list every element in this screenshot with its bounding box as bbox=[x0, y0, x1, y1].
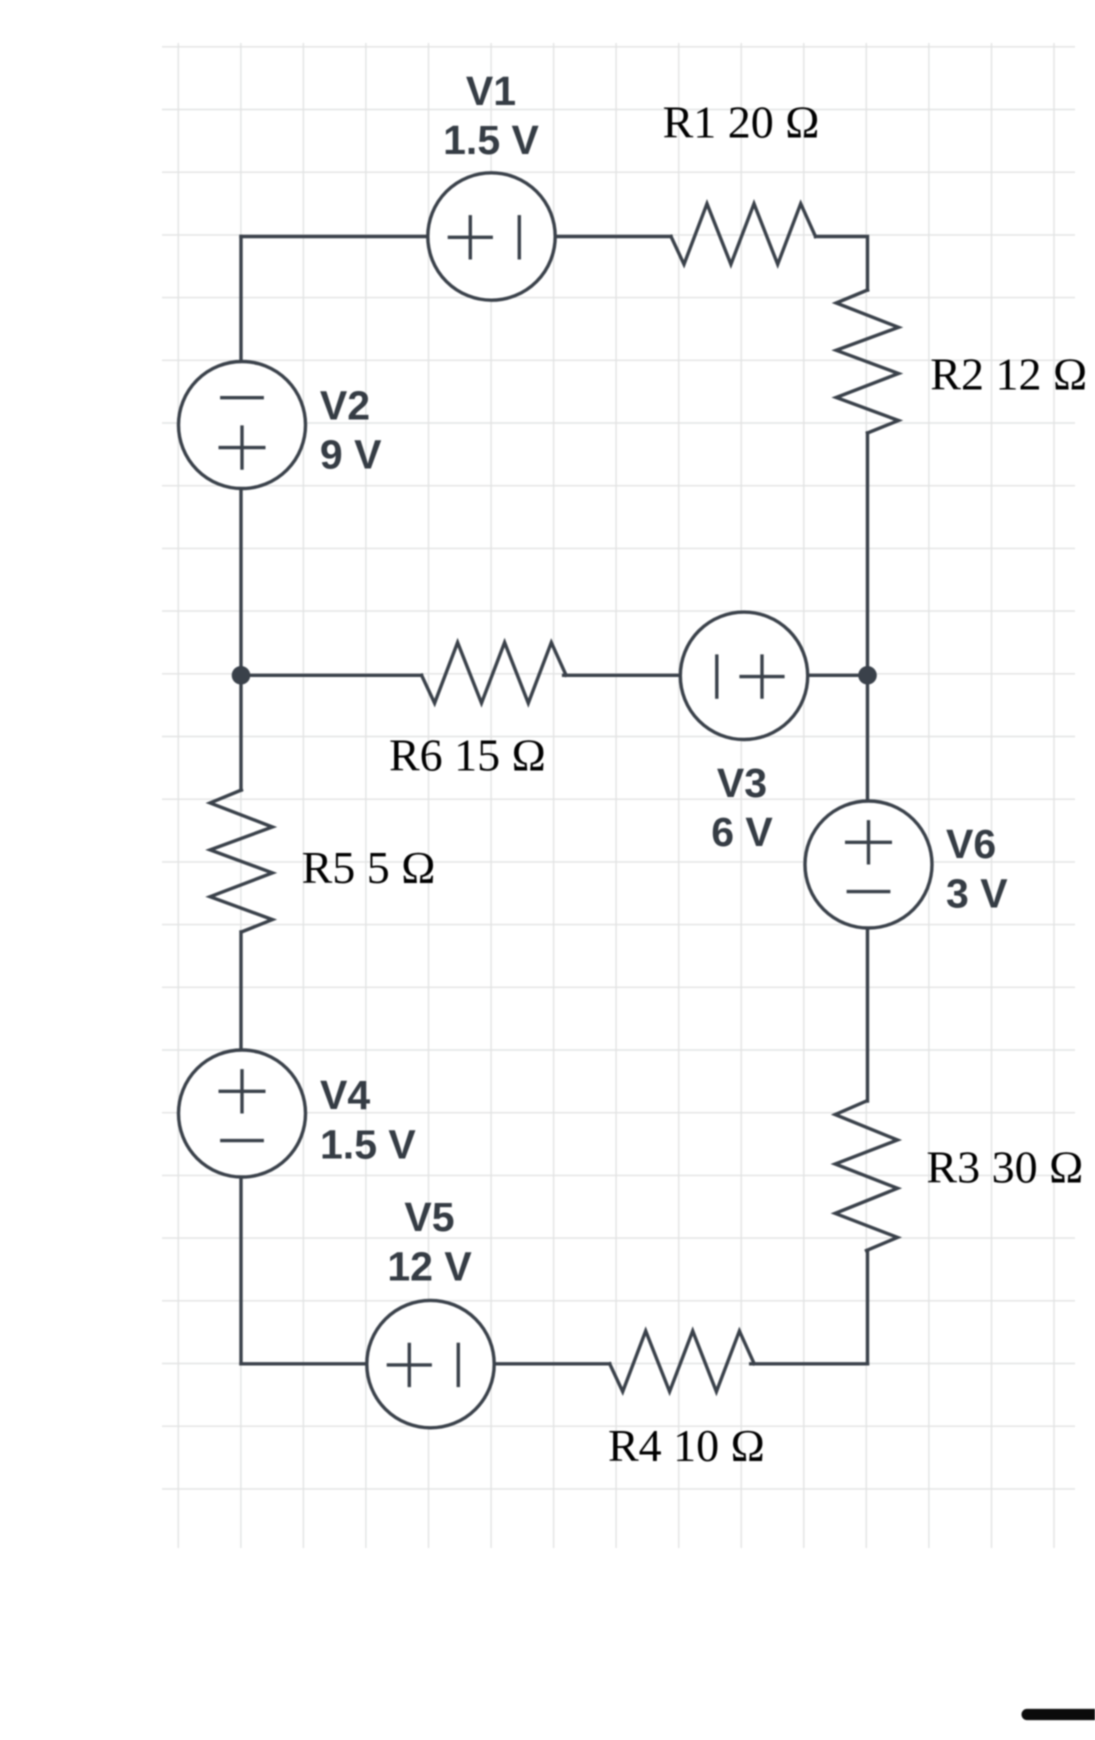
scrollbar thumb (bottom right) bbox=[1022, 1709, 1095, 1720]
svg-text:V6: V6 bbox=[946, 821, 996, 867]
voltage source V5 bbox=[367, 1300, 494, 1427]
svg-text:V2: V2 bbox=[320, 382, 370, 428]
wire: top-left corner to V2 bbox=[239, 237, 242, 362]
grid (decorative) bbox=[162, 43, 1075, 1548]
wire: R5 to V4 bbox=[239, 932, 242, 1050]
resistor R4 bbox=[610, 1331, 755, 1392]
svg-text:V1: V1 bbox=[466, 68, 516, 114]
svg-text:12 V: 12 V bbox=[387, 1243, 472, 1289]
wire: V4 to bottom-left corner bbox=[239, 1177, 242, 1364]
svg-text:V5: V5 bbox=[404, 1194, 454, 1240]
wire: top-left corner to V1 bbox=[241, 235, 428, 238]
voltage source V2 bbox=[179, 362, 306, 489]
resistor R3 bbox=[835, 1101, 897, 1251]
svg-text:R1 20 Ω: R1 20 Ω bbox=[663, 97, 820, 148]
resistor R5 bbox=[210, 790, 272, 932]
svg-text:R2 12 Ω: R2 12 Ω bbox=[930, 348, 1087, 399]
svg-text:3 V: 3 V bbox=[946, 870, 1008, 916]
wire: V5 to R4 bbox=[495, 1362, 610, 1365]
resistor R1 bbox=[671, 204, 816, 265]
wire: V1 to R1 bbox=[555, 235, 671, 238]
wire: R3 to bottom-right corner bbox=[866, 1251, 869, 1364]
wire: V3 to right junction bbox=[808, 674, 868, 677]
wire: R1 to top-right corner down to R2 bbox=[816, 237, 868, 291]
node: right junction bbox=[858, 666, 877, 685]
voltage source V4 bbox=[179, 1050, 306, 1177]
voltage source V1 bbox=[428, 173, 555, 300]
node: left junction bbox=[232, 666, 251, 685]
wire: V6 to R3 bbox=[866, 928, 869, 1102]
resistor R6 bbox=[422, 643, 566, 704]
svg-text:6 V: 6 V bbox=[711, 809, 773, 855]
svg-text:R4 10 Ω: R4 10 Ω bbox=[608, 1420, 765, 1471]
wire: left junction to R5 bbox=[239, 675, 242, 790]
svg-text:V4: V4 bbox=[320, 1072, 370, 1118]
wire: left junction to R6 bbox=[241, 674, 422, 677]
svg-text:1.5 V: 1.5 V bbox=[320, 1121, 416, 1167]
svg-text:R5 5 Ω: R5 5 Ω bbox=[302, 842, 436, 893]
voltage source V6 bbox=[805, 801, 932, 928]
wire: right junction to V6 bbox=[866, 675, 869, 801]
wire: V2 to left junction bbox=[239, 489, 242, 676]
voltage source V3 bbox=[680, 612, 807, 739]
svg-text:1.5 V: 1.5 V bbox=[443, 117, 539, 163]
wire: R6 to V3 bbox=[564, 674, 681, 677]
wire: bottom-left corner to V5 bbox=[241, 1362, 367, 1365]
wire: R2 to right junction bbox=[866, 433, 869, 675]
svg-text:9 V: 9 V bbox=[320, 432, 382, 478]
wire: R4 to bottom-right corner bbox=[751, 1362, 868, 1365]
svg-text:R6 15 Ω: R6 15 Ω bbox=[389, 730, 546, 781]
svg-text:R3 30 Ω: R3 30 Ω bbox=[926, 1142, 1083, 1193]
resistor R2 bbox=[836, 290, 898, 433]
svg-text:V3: V3 bbox=[717, 760, 767, 806]
